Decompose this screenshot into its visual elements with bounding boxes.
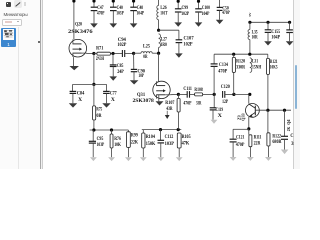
capacitor C120 — [222, 91, 224, 98]
capacitor C121 — [230, 129, 237, 161]
arrow marker — [165, 111, 170, 119]
svg-text:680R: 680R — [272, 139, 281, 145]
resistor R122 — [265, 110, 272, 161]
capacitor C84 — [69, 84, 77, 107]
capacitor C47 — [90, 0, 98, 28]
svg-text:C111: C111 — [183, 86, 192, 92]
wire bottom-mid bus — [142, 129, 182, 131]
capacitor C134 — [211, 54, 218, 94]
svg-text:L25: L25 — [143, 43, 150, 49]
wire — [110, 53, 122, 55]
wire Q31 out — [170, 93, 178, 95]
svg-text:470P: 470P — [236, 142, 245, 148]
resistor R107 — [177, 94, 180, 129]
svg-text:103P: 103P — [116, 11, 124, 17]
svg-text:10R: 10R — [252, 35, 258, 41]
svg-text:470P: 470P — [183, 101, 192, 107]
node drain Q20 — [72, 0, 75, 3]
capacitor C40 — [110, 0, 118, 28]
wire Q20 out — [86, 53, 94, 55]
svg-text:103P: 103P — [97, 142, 105, 148]
transistor Q20 — [69, 39, 87, 57]
resistor R71 — [97, 52, 111, 55]
wire — [233, 128, 249, 130]
svg-text:330R: 330R — [236, 64, 245, 70]
svg-text:101T: 101T — [160, 10, 168, 16]
resistor R99 — [125, 130, 132, 161]
node emitter — [247, 127, 250, 130]
svg-text:2SK3476: 2SK3476 — [68, 29, 93, 35]
right scrollbar — [293, 0, 294, 169]
node C90 top — [132, 52, 135, 55]
capacitor C95 — [89, 130, 97, 161]
svg-text:22K: 22K — [131, 140, 139, 146]
wire — [134, 52, 141, 54]
svg-text:150K: 150K — [146, 141, 156, 147]
transistor Q33 — [246, 104, 260, 118]
wire emitter — [248, 117, 250, 129]
wire — [94, 53, 97, 55]
node R122 top — [266, 109, 269, 112]
svg-text:R108: R108 — [194, 87, 203, 93]
svg-text:24P: 24P — [117, 69, 124, 75]
node R76 — [110, 128, 113, 131]
svg-text:10P: 10P — [138, 73, 144, 79]
svg-text:X: X — [78, 97, 82, 103]
svg-text:2N3H: 2N3H — [96, 56, 105, 62]
node bus1 — [248, 21, 251, 24]
svg-text:R99: R99 — [131, 133, 138, 139]
svg-text:C85: C85 — [117, 63, 124, 69]
wire top bus — [250, 21, 290, 23]
svg-text:104P: 104P — [137, 11, 145, 17]
svg-text:104P: 104P — [271, 35, 280, 41]
svg-text:102P: 102P — [181, 11, 189, 17]
capacitor C77 — [102, 84, 110, 107]
svg-text:C121: C121 — [236, 135, 245, 141]
capacitor C111 — [186, 91, 188, 98]
wire — [225, 93, 234, 95]
svg-text:2K: 2K — [286, 126, 291, 131]
node R120 bottom — [232, 93, 235, 96]
node C84/C77 — [92, 83, 95, 86]
capacitor C94 — [121, 50, 123, 57]
ground Q31 — [156, 95, 164, 106]
node Q4 — [283, 109, 286, 112]
capacitor C85 — [109, 54, 117, 81]
sidebar combobox — [2, 19, 22, 26]
white page — [43, 0, 293, 169]
node R71 right — [111, 52, 114, 55]
selected thumbnail — [1, 28, 15, 48]
svg-text:Q4: Q4 — [286, 119, 291, 125]
svg-text:R105: R105 — [182, 134, 191, 140]
resistor R76 — [108, 130, 115, 161]
svg-text:102P: 102P — [183, 41, 193, 47]
svg-text:C: C — [290, 133, 293, 139]
separator handle dot — [38, 41, 40, 43]
node L26/L27 — [157, 29, 160, 32]
svg-text:C77: C77 — [110, 91, 117, 97]
node R75/C95 — [92, 128, 95, 131]
capacitor C100 — [195, 0, 203, 27]
resistor R121 — [267, 54, 270, 110]
svg-text:22R: 22R — [254, 141, 261, 147]
capacitor right edge — [286, 22, 294, 45]
wire — [152, 52, 158, 54]
toolbar icon: side pane — [6, 2, 12, 8]
svg-text:10K5: 10K5 — [270, 65, 278, 71]
capacitor C119 — [210, 94, 218, 123]
svg-text:R104: R104 — [146, 134, 155, 140]
pane separator lines — [40, 0, 41, 169]
svg-text:102P: 102P — [117, 42, 127, 48]
svg-text:R76: R76 — [114, 136, 121, 142]
svg-text:5V: 5V — [248, 12, 252, 17]
wire — [73, 0, 75, 39]
svg-text:C120: C120 — [221, 84, 230, 90]
capacitor C155 — [264, 22, 272, 45]
resistor R75 — [93, 84, 96, 130]
resistor R108 — [195, 93, 203, 96]
svg-text:X: X — [111, 97, 115, 103]
resistor R104 — [140, 130, 147, 162]
wire base — [255, 109, 291, 111]
wire — [190, 93, 195, 95]
node R107 bottom — [177, 128, 180, 131]
capacitor C48 — [130, 0, 138, 28]
inductor L27 — [159, 34, 161, 53]
capacitor C107 — [175, 30, 183, 58]
wire bottom-left bus — [90, 129, 129, 131]
svg-text:470P: 470P — [222, 10, 230, 16]
node L31 top — [248, 53, 251, 56]
resistor R111 — [247, 129, 254, 161]
wire — [73, 83, 107, 85]
resistor R105 — [176, 133, 183, 161]
node C119/C134 — [213, 93, 216, 96]
svg-text:103P: 103P — [165, 141, 175, 147]
node R107 top — [177, 93, 180, 96]
resistor R120 — [232, 54, 235, 94]
node L31 bottom — [248, 93, 251, 96]
svg-text:0R: 0R — [143, 54, 147, 60]
svg-text:10K: 10K — [114, 142, 121, 148]
svg-text:104P: 104P — [202, 11, 210, 17]
inductor L25 — [141, 52, 152, 54]
capacitor C50 — [216, 0, 224, 24]
node L27 bottom — [157, 52, 160, 55]
wire — [125, 53, 134, 55]
svg-text:470P: 470P — [97, 11, 105, 17]
svg-text:Q20: Q20 — [75, 22, 82, 28]
wire — [93, 54, 95, 85]
wire Q31 drain — [158, 53, 160, 81]
wire — [178, 93, 187, 95]
svg-text:43R: 43R — [166, 106, 172, 112]
toolbar button: annotate (pencil) — [14, 0, 23, 8]
svg-text:470P: 470P — [218, 68, 228, 74]
sidebar background — [0, 0, 40, 169]
svg-text:0R: 0R — [96, 113, 101, 119]
capacitor C (edge) — [281, 110, 289, 154]
inductor L35 — [248, 22, 250, 54]
svg-text:12P: 12P — [222, 99, 228, 105]
svg-text:C134: C134 — [219, 62, 228, 68]
svg-text:C84: C84 — [77, 91, 85, 97]
node R71 left — [92, 52, 95, 55]
wire — [159, 29, 179, 31]
svg-text:2SK3078: 2SK3078 — [133, 98, 155, 104]
svg-text:1R0: 1R0 — [161, 42, 167, 48]
sidebar faint scroll line — [18, 27, 19, 169]
node C112 — [159, 128, 162, 131]
svg-text:47K: 47K — [182, 141, 190, 147]
svg-text:15NH: 15NH — [252, 64, 262, 70]
toolbar faint control — [24, 2, 26, 6]
inductor L31 — [250, 58, 252, 73]
wire — [234, 93, 250, 95]
wire upper-right — [214, 53, 268, 55]
sidebar label — [4, 12, 28, 17]
node bus2 — [266, 21, 269, 24]
inductor L26 — [157, 0, 159, 30]
wire collector — [248, 94, 250, 103]
node bus3 — [288, 21, 291, 24]
capacitor C90 — [130, 53, 139, 84]
wire — [203, 93, 215, 95]
svg-text:X: X — [218, 113, 222, 119]
svg-text:C95: C95 — [97, 136, 104, 142]
svg-text:R71: R71 — [96, 45, 103, 51]
svg-text:R75: R75 — [96, 107, 102, 113]
svg-text:C112: C112 — [165, 134, 174, 140]
svg-text:33R: 33R — [196, 101, 201, 107]
svg-text:3: 3 — [291, 141, 294, 147]
capacitor C99 — [174, 0, 182, 27]
ground Q20 — [69, 57, 79, 70]
transistor Q31 — [153, 81, 170, 98]
capacitor C112 — [158, 130, 165, 162]
node R120 top — [232, 53, 235, 56]
